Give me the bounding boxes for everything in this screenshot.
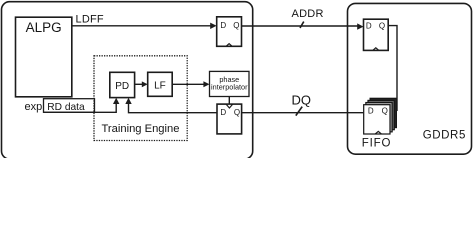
svg-text:ADDR: ADDR [292, 8, 324, 20]
svg-text:LDFF: LDFF [76, 14, 104, 26]
svg-text:GDDR5: GDDR5 [423, 129, 466, 141]
svg-text:DQ: DQ [292, 92, 312, 107]
svg-text:Q: Q [234, 108, 240, 117]
svg-text:LF: LF [154, 80, 166, 91]
svg-text:D: D [220, 108, 226, 117]
svg-text:FIFO: FIFO [362, 138, 391, 150]
svg-text:ALPG: ALPG [26, 20, 62, 35]
svg-text:D: D [366, 22, 372, 31]
svg-text:exp: exp [25, 101, 43, 113]
svg-text:Training Engine: Training Engine [102, 123, 180, 135]
svg-text:PD: PD [115, 81, 129, 92]
svg-text:D: D [220, 21, 226, 30]
svg-text:interpolator: interpolator [211, 83, 248, 92]
svg-text:Q: Q [379, 22, 385, 31]
svg-text:RD data: RD data [47, 102, 85, 113]
svg-text:D: D [368, 107, 374, 116]
svg-text:Q: Q [382, 107, 388, 116]
svg-text:Q: Q [233, 21, 239, 30]
